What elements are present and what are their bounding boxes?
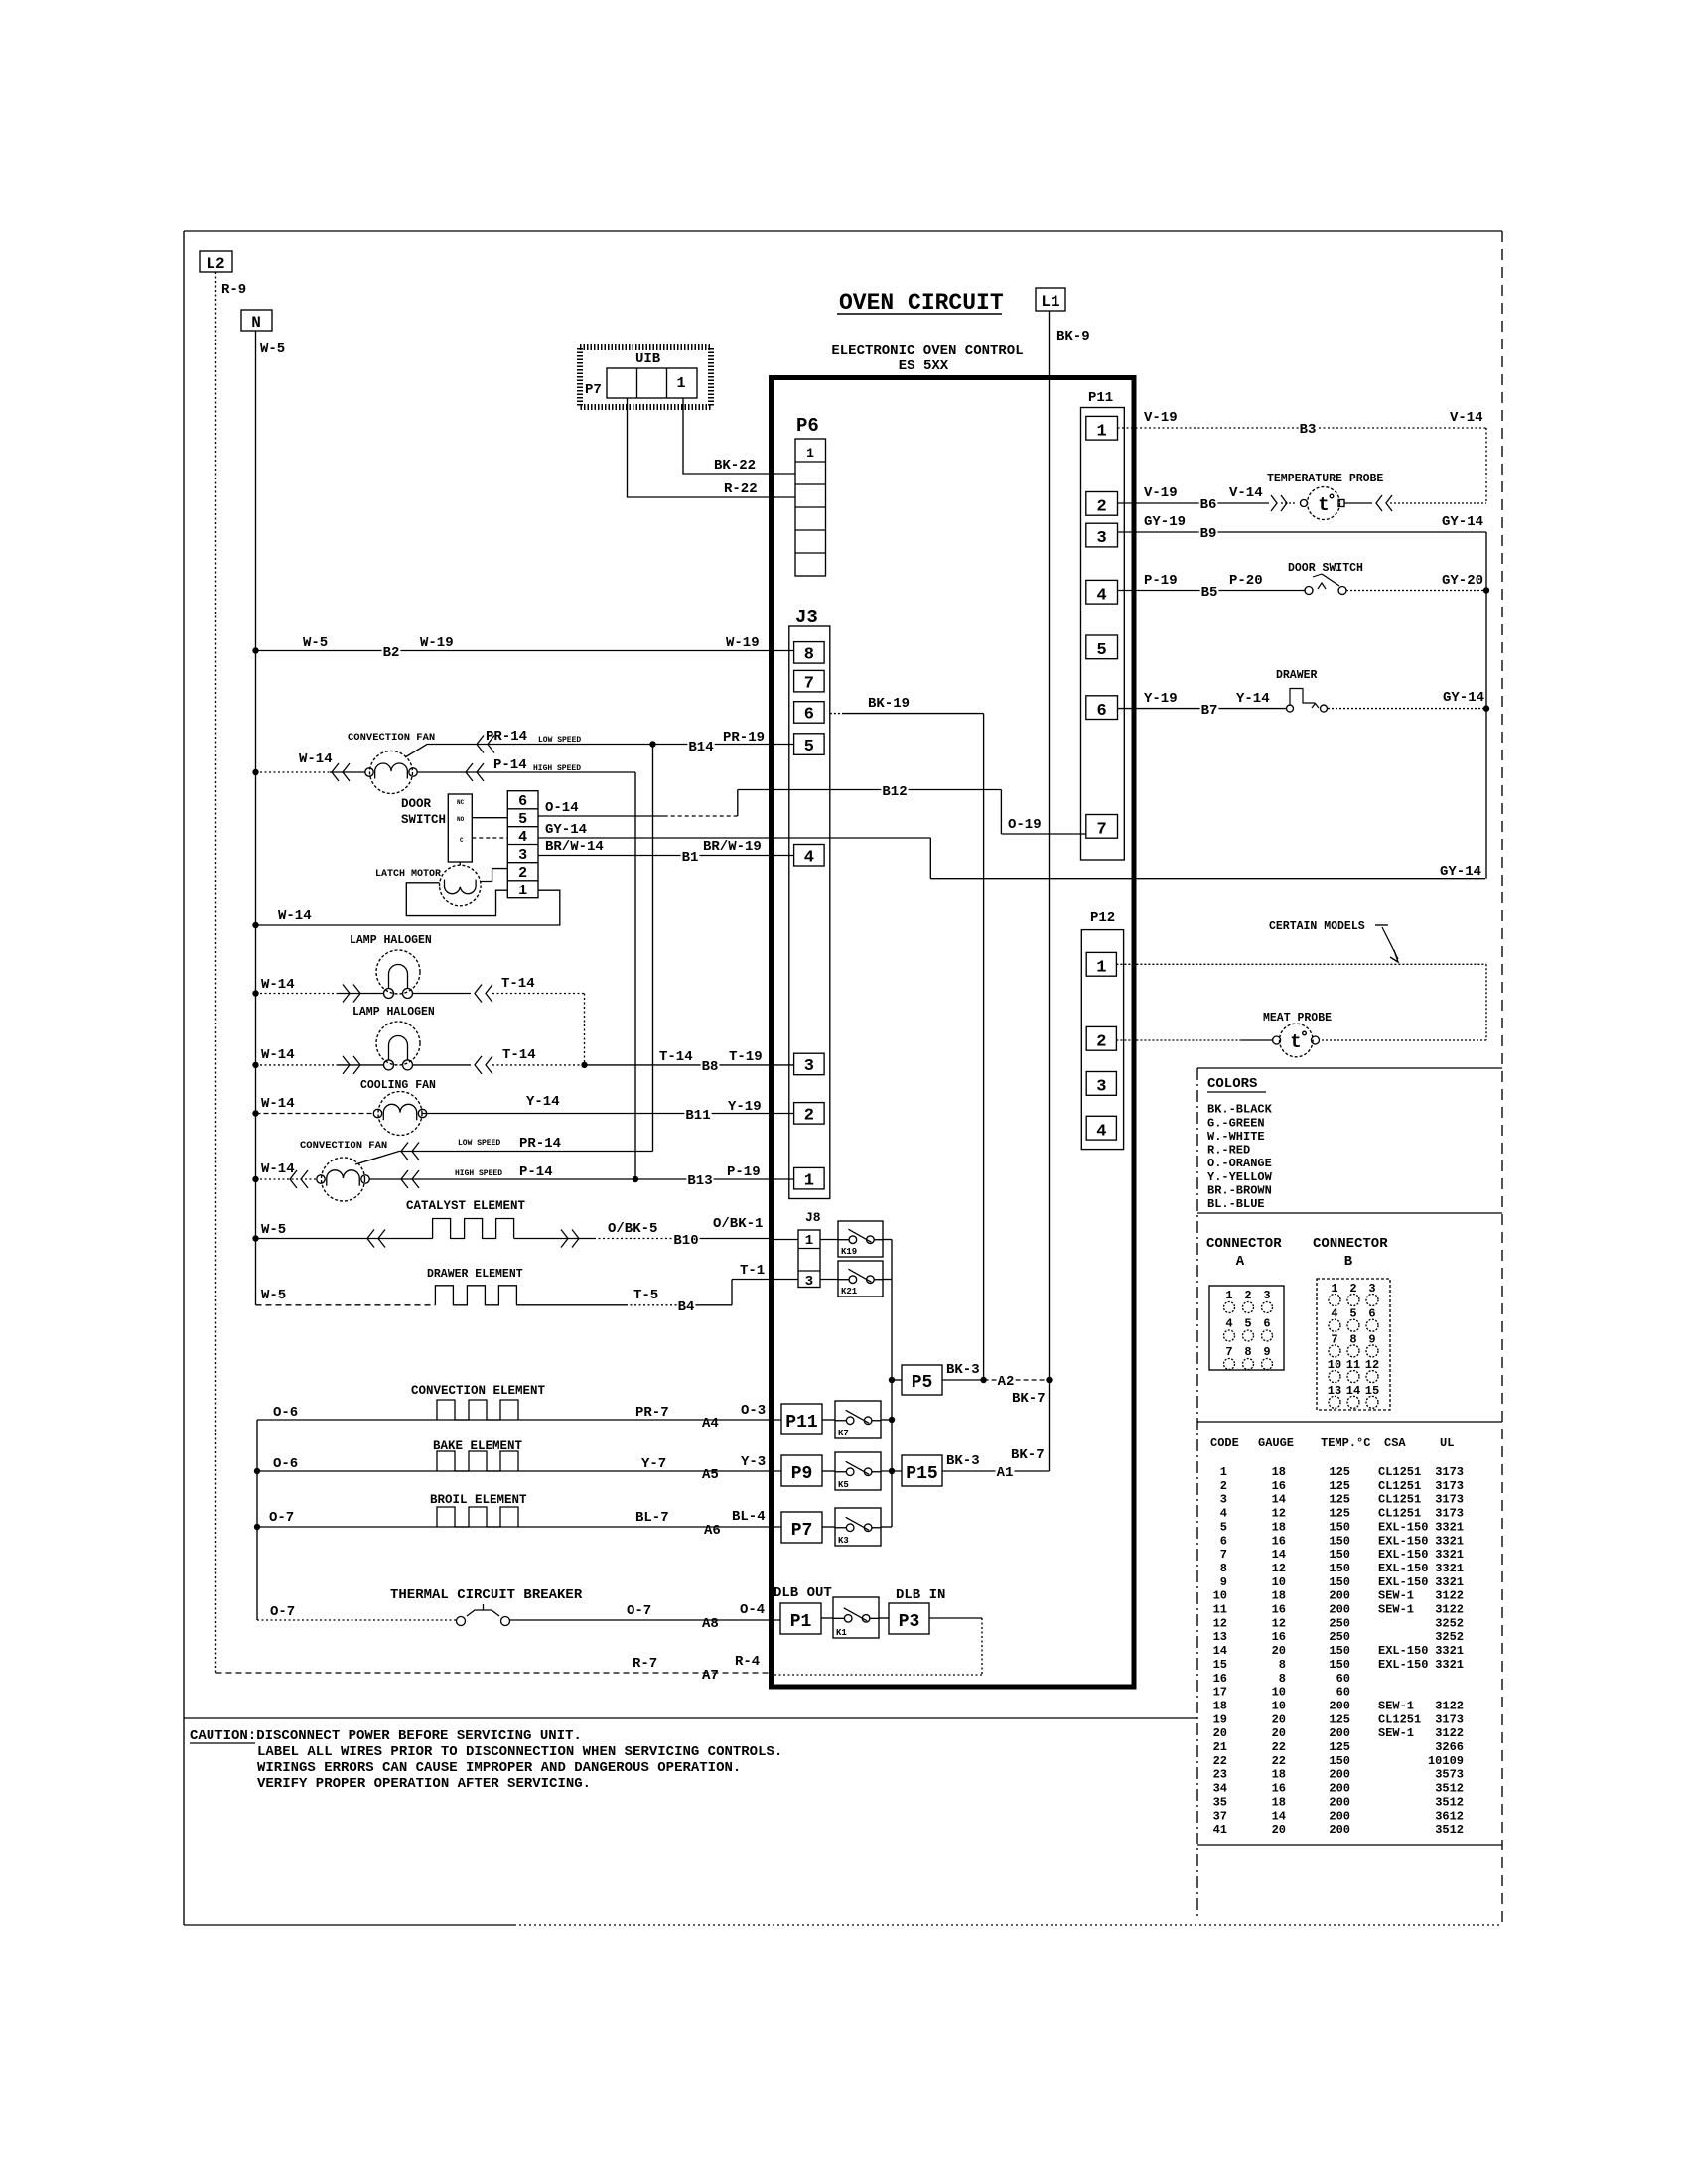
J3 pin 7 [794,670,825,693]
wire latch motor to door switch [459,862,461,865]
svg-text:A5: A5 [702,1467,719,1483]
svg-text:P-14: P-14 [519,1164,553,1180]
svg-text:CAUTION:DISCONNECT POWER BEFOR: CAUTION:DISCONNECT POWER BEFORE SERVICIN… [190,1728,582,1744]
svg-text:PR-7: PR-7 [635,1405,669,1421]
svg-text:P-14: P-14 [493,757,527,773]
svg-text:T-14: T-14 [502,1047,536,1063]
svg-text:5: 5 [1244,1317,1251,1331]
svg-text:3321: 3321 [1435,1658,1464,1672]
wire gauge table [1210,1436,1464,1837]
relay K5 [835,1452,881,1490]
arrows W-14 fan upper [332,763,350,781]
svg-text:4: 4 [1220,1507,1227,1521]
svg-text:BK-22: BK-22 [714,458,756,474]
svg-text:16: 16 [1272,1782,1286,1796]
thermal circuit breaker [457,1604,510,1626]
svg-text:V-19: V-19 [1144,410,1178,426]
J3 pin 6 [794,702,825,725]
svg-text:3: 3 [805,1274,813,1290]
svg-text:150: 150 [1329,1658,1350,1672]
svg-text:CONVECTION ELEMENT: CONVECTION ELEMENT [411,1384,546,1398]
svg-text:1: 1 [518,883,527,899]
arrows catalyst right [561,1230,579,1248]
node L2 [200,251,232,273]
J3 pin 4 [794,845,825,868]
svg-text:5: 5 [1349,1307,1356,1321]
svg-text:SEW-1: SEW-1 [1378,1589,1414,1603]
svg-text:10: 10 [1272,1686,1286,1700]
svg-text:B14: B14 [688,740,713,755]
svg-text:Y-14: Y-14 [1236,691,1270,707]
svg-text:BR.-BROWN: BR.-BROWN [1207,1184,1272,1198]
svg-text:B5: B5 [1201,585,1218,601]
svg-text:1: 1 [804,1171,814,1190]
svg-text:5: 5 [518,811,527,828]
svg-text:3612: 3612 [1435,1809,1464,1823]
svg-text:NO: NO [457,816,465,823]
certain models leader arrow [1375,925,1398,962]
P12 pin 1 [1086,952,1116,977]
svg-text:22: 22 [1213,1754,1227,1768]
svg-text:R-4: R-4 [735,1654,760,1670]
svg-text:A1: A1 [997,1465,1014,1481]
svg-text:UL: UL [1440,1436,1454,1450]
electronic oven control board outline [772,378,1135,1688]
svg-text:9: 9 [1220,1575,1227,1589]
svg-text:SWITCH: SWITCH [401,813,446,827]
svg-text:T-19: T-19 [729,1049,763,1065]
label B14 [687,740,714,752]
drawer element resistor [435,1286,516,1305]
svg-text:K1: K1 [836,1628,847,1638]
wire BK-3 A1 from P15 [942,1470,1050,1472]
svg-text:GAUGE: GAUGE [1258,1436,1294,1450]
svg-text:11: 11 [1213,1603,1227,1617]
svg-text:W-5: W-5 [261,1222,286,1238]
page border frame [184,231,1502,1925]
meat probe [1273,1024,1320,1057]
svg-text:8: 8 [1244,1345,1251,1359]
svg-text:10109: 10109 [1428,1754,1464,1768]
label B13 [686,1173,713,1186]
svg-text:P1: P1 [790,1612,812,1632]
svg-text:200: 200 [1329,1809,1350,1823]
svg-text:NC: NC [457,799,465,806]
wire BK-19 from J3 pin 6 [830,713,984,715]
svg-text:1: 1 [1220,1465,1227,1479]
wire P9 to K5 [822,1470,835,1472]
svg-text:LAMP HALOGEN: LAMP HALOGEN [352,1006,435,1019]
svg-text:EXL-150: EXL-150 [1378,1644,1428,1658]
svg-text:W-14: W-14 [261,1047,295,1063]
svg-text:V-14: V-14 [1450,410,1483,426]
wire P7 to K3 [822,1526,835,1528]
wire B11 Y-19 to J3 pin 2 [423,1113,794,1115]
svg-text:7: 7 [1331,1332,1337,1346]
label B3 [1299,422,1318,435]
junction W-14 cooling [252,1110,258,1116]
svg-text:3: 3 [804,1057,814,1076]
svg-text:12: 12 [1272,1616,1286,1630]
svg-text:14: 14 [1272,1493,1286,1507]
svg-text:B7: B7 [1201,703,1218,719]
svg-text:125: 125 [1329,1740,1350,1754]
arrows catalyst left [367,1230,385,1248]
svg-text:O.-ORANGE: O.-ORANGE [1207,1157,1272,1170]
svg-text:14: 14 [1272,1548,1286,1562]
svg-text:1: 1 [1096,958,1106,977]
svg-text:V-19: V-19 [1144,485,1178,501]
svg-text:W-5: W-5 [303,635,328,651]
wire P12 pin 1 loop [1116,964,1486,1040]
svg-text:150: 150 [1329,1575,1350,1589]
wire BK-22 from UIB pin to P6 [683,398,795,474]
svg-text:VERIFY PROPER OPERATION AFTER: VERIFY PROPER OPERATION AFTER SERVICING. [257,1776,591,1792]
latch motor [440,865,482,906]
svg-text:2: 2 [1349,1282,1356,1296]
svg-text:3573: 3573 [1435,1768,1464,1782]
svg-text:13: 13 [1213,1630,1227,1644]
svg-text:150: 150 [1329,1548,1350,1562]
svg-text:7: 7 [1096,821,1106,840]
P12 pin 2 [1086,1026,1116,1051]
svg-text:5: 5 [1220,1520,1227,1534]
svg-text:125: 125 [1329,1507,1350,1521]
wire GY-14 from door switch pin 4 [538,838,1485,879]
svg-text:200: 200 [1329,1726,1350,1740]
svg-text:P7: P7 [585,382,602,398]
svg-text:EXL-150: EXL-150 [1378,1534,1428,1548]
svg-text:P-19: P-19 [727,1164,761,1180]
svg-text:O-19: O-19 [1008,817,1042,833]
wire R-7 A7 into board [216,1672,772,1674]
svg-text:P5: P5 [912,1373,933,1393]
svg-text:CERTAIN MODELS: CERTAIN MODELS [1269,920,1365,933]
junction bus K7 [889,1417,895,1423]
svg-text:4: 4 [1331,1307,1337,1321]
label CONNECTOR A [1206,1236,1282,1270]
wire B2 W-19 to J3 pin 8 [256,650,794,652]
svg-text:7: 7 [804,674,814,693]
svg-text:CONVECTION FAN: CONVECTION FAN [348,732,435,744]
svg-text:14: 14 [1272,1809,1286,1823]
right column borders [1197,1068,1502,1919]
wire B13 P-19 to J3 pin 1 (high speed) [635,1178,794,1180]
svg-text:250: 250 [1329,1616,1350,1630]
svg-text:125: 125 [1329,1479,1350,1493]
svg-text:B11: B11 [685,1108,710,1124]
svg-text:W.-WHITE: W.-WHITE [1207,1130,1265,1144]
svg-text:COOLING FAN: COOLING FAN [360,1079,436,1092]
J3 pin 8 [794,642,825,665]
svg-text:P11: P11 [1088,390,1113,406]
svg-text:4: 4 [1096,1122,1106,1141]
svg-text:16: 16 [1272,1479,1286,1493]
J3 pin 3 [794,1053,825,1076]
svg-text:EXL-150: EXL-150 [1378,1575,1428,1589]
svg-text:20: 20 [1213,1726,1227,1740]
svg-text:TEMPERATURE PROBE: TEMPERATURE PROBE [1267,473,1383,485]
P11 pin 6 [1086,696,1118,721]
wire GY-14 dotted drawer [1328,708,1486,710]
J3 pin 5 [794,734,825,756]
svg-text:t: t [1318,494,1329,516]
label ELECTRONIC OVEN CONTROL ES 5XX [831,343,1023,374]
svg-text:B13: B13 [687,1173,712,1189]
junction high speed bus [633,1176,638,1182]
junction BK-7 A2 [1046,1377,1052,1383]
junction bus P5 [889,1377,895,1383]
svg-text:6: 6 [1368,1307,1375,1321]
svg-text:A6: A6 [704,1523,721,1539]
svg-text:O-6: O-6 [273,1456,298,1472]
svg-text:17: 17 [1213,1686,1227,1700]
wire drawer W-5 side [256,1304,436,1306]
wire B3 V-14 from P11 pin 1 [1118,428,1487,503]
convection fan lower motor [317,1158,369,1201]
svg-text:CL1251: CL1251 [1378,1493,1421,1507]
wire B8 T-19 to J3 pin 3 [585,1064,794,1066]
UIB board hatched outline [580,347,711,407]
svg-text:8: 8 [1279,1658,1286,1672]
wire catalyst right O/BK-5 [514,1238,771,1240]
P12 pin 4 [1086,1116,1116,1141]
svg-text:CONNECTOR: CONNECTOR [1313,1236,1388,1252]
svg-text:BK-19: BK-19 [868,696,910,712]
svg-text:BR/W-14: BR/W-14 [545,839,604,855]
svg-text:UIB: UIB [635,351,661,367]
svg-text:1: 1 [805,1233,813,1249]
junction W-14 conv lower [252,1176,258,1182]
svg-text:LAMP HALOGEN: LAMP HALOGEN [350,934,432,947]
svg-text:5: 5 [1096,641,1106,660]
wire W-14 into convection fan upper [256,771,366,773]
terminal P9 [781,1455,822,1486]
svg-text:14: 14 [1213,1644,1227,1658]
svg-text:T-14: T-14 [659,1049,693,1065]
relay K7 [835,1401,881,1438]
svg-text:P12: P12 [1090,910,1115,926]
low speed vertical bus [652,745,654,1152]
svg-text:3321: 3321 [1435,1520,1464,1534]
svg-text:3: 3 [1263,1289,1270,1302]
wire R-22 from UIB pin to P6 [628,398,796,497]
svg-text:200: 200 [1329,1782,1350,1796]
svg-text:2: 2 [1244,1289,1251,1302]
svg-text:B3: B3 [1300,422,1317,438]
wire bake element [257,1470,781,1472]
svg-text:DRAWER ELEMENT: DRAWER ELEMENT [427,1268,523,1281]
svg-text:W-14: W-14 [278,908,312,924]
svg-text:35: 35 [1213,1795,1227,1809]
connector P6 6-pin strip [795,439,826,576]
junction element bus broil [254,1524,260,1530]
wire B14 PR-19 to J3 pin 5 (low speed) [653,744,794,746]
svg-text:A2: A2 [998,1374,1015,1390]
wire thermal breaker left [257,1619,456,1621]
svg-text:23: 23 [1213,1768,1227,1782]
svg-text:3: 3 [1220,1493,1227,1507]
catalyst element resistor [433,1219,514,1239]
svg-text:CONNECTOR: CONNECTOR [1206,1236,1282,1252]
svg-text:CL1251: CL1251 [1378,1712,1421,1726]
svg-text:200: 200 [1329,1795,1350,1809]
svg-text:150: 150 [1329,1644,1350,1658]
wire drawer right T-5 to J8 [516,1280,798,1305]
svg-text:2: 2 [518,865,527,882]
svg-text:200: 200 [1329,1768,1350,1782]
svg-text:12: 12 [1272,1562,1286,1575]
svg-text:3122: 3122 [1435,1699,1464,1712]
svg-text:18: 18 [1213,1699,1227,1712]
junction W-14 fan upper [252,769,258,775]
svg-text:R-7: R-7 [633,1656,657,1672]
svg-text:22: 22 [1272,1740,1286,1754]
svg-text:Y-3: Y-3 [741,1454,766,1470]
svg-text:K5: K5 [838,1480,849,1490]
svg-text:2: 2 [1096,498,1106,517]
svg-text:8: 8 [1279,1672,1286,1686]
svg-text:COLORS: COLORS [1207,1076,1257,1092]
svg-text:6: 6 [1096,702,1106,721]
svg-text:O-6: O-6 [273,1405,298,1421]
label B1 [681,850,700,863]
J3 pin 1 [794,1167,825,1190]
broil element resistor [437,1507,518,1527]
COLORS legend [1207,1076,1273,1211]
svg-text:37: 37 [1213,1809,1227,1823]
svg-text:125: 125 [1329,1493,1350,1507]
svg-text:2: 2 [804,1107,814,1126]
svg-text:J3: J3 [795,607,818,628]
wire P3 return loop [771,1618,982,1675]
svg-text:18: 18 [1272,1589,1286,1603]
svg-text:4: 4 [518,829,527,846]
svg-text:B: B [1344,1254,1353,1270]
junction W-5 catalyst [252,1235,258,1241]
connector J3 outline [789,626,830,1199]
svg-text:6: 6 [1220,1534,1227,1548]
svg-text:N: N [251,314,261,332]
svg-text:B6: B6 [1200,497,1217,513]
svg-text:3: 3 [1096,529,1106,548]
svg-text:BK-7: BK-7 [1011,1447,1045,1463]
svg-text:B9: B9 [1200,526,1217,542]
svg-text:OVEN CIRCUIT: OVEN CIRCUIT [839,290,1004,316]
wire B7 Y-14 from P11 pin 6 [1118,708,1288,710]
svg-text:3512: 3512 [1435,1795,1464,1809]
svg-text:5: 5 [804,738,814,756]
label CONNECTOR B [1313,1236,1388,1270]
arrows PR-14 upper [477,736,494,753]
connector B face [1317,1279,1390,1410]
terminal P1 [780,1603,821,1634]
convection fan upper motor [365,751,417,794]
svg-text:20: 20 [1272,1823,1286,1837]
label B11 [684,1108,711,1121]
svg-text:O-7: O-7 [627,1603,651,1619]
svg-text:SEW-1: SEW-1 [1378,1699,1414,1712]
wire low speed lower [355,1152,653,1165]
arrows lamp2 left [343,1056,360,1074]
temperature probe [1281,487,1344,520]
svg-text:3252: 3252 [1435,1616,1464,1630]
svg-text:O/BK-1: O/BK-1 [713,1216,763,1232]
svg-text:125: 125 [1329,1712,1350,1726]
svg-text:Y-7: Y-7 [641,1456,666,1472]
svg-text:DRAWER: DRAWER [1276,669,1318,682]
connector J8 strip [798,1230,820,1290]
svg-text:Y.-YELLOW: Y.-YELLOW [1207,1170,1273,1184]
svg-text:ES 5XX: ES 5XX [899,358,949,374]
svg-text:t: t [1290,1031,1301,1053]
wire broil element [257,1526,781,1528]
label B6 [1199,497,1218,510]
svg-text:B8: B8 [702,1059,719,1075]
wire temp probe right [1344,502,1486,504]
svg-text:60: 60 [1336,1686,1350,1700]
svg-text:10: 10 [1328,1358,1341,1372]
convection element resistor [437,1400,518,1420]
svg-text:T-1: T-1 [740,1263,765,1279]
svg-text:K3: K3 [838,1536,849,1546]
svg-text:1: 1 [676,375,685,392]
door switch connector 6-pin strip [507,791,538,900]
connector P12 outline [1081,930,1123,1150]
svg-text:150: 150 [1329,1520,1350,1534]
svg-text:1: 1 [1225,1289,1232,1302]
svg-text:200: 200 [1329,1589,1350,1603]
svg-text:P7: P7 [791,1521,813,1541]
svg-text:B4: B4 [678,1299,695,1315]
svg-text:3512: 3512 [1435,1823,1464,1837]
svg-text:12: 12 [1213,1616,1227,1630]
node N [241,310,272,332]
svg-text:150: 150 [1329,1754,1350,1768]
svg-text:11: 11 [1346,1358,1360,1372]
junction GY-14 drawer [1483,705,1489,711]
svg-text:LATCH MOTOR: LATCH MOTOR [375,869,441,880]
wire O-14 from pin 5 [538,790,738,817]
wire catalyst W-5 side [256,1238,433,1240]
relay K19 [838,1221,883,1257]
wire W-14 lamp 2 [256,1064,585,1066]
junction bus K5 [889,1468,895,1474]
svg-text:A8: A8 [702,1616,719,1632]
svg-text:9: 9 [1263,1345,1270,1359]
svg-text:CONVECTION FAN: CONVECTION FAN [300,1140,387,1152]
svg-text:L1: L1 [1041,293,1059,311]
svg-text:GY-19: GY-19 [1144,514,1186,530]
arrows temp probe right [1376,495,1392,511]
svg-text:P6: P6 [796,415,819,437]
terminal P11 relay input [781,1404,822,1434]
BK-19 vertical to A2 [983,714,985,1380]
svg-text:BROIL ELEMENT: BROIL ELEMENT [430,1493,527,1507]
arrows low speed lower [401,1143,419,1160]
svg-text:200: 200 [1329,1603,1350,1617]
svg-text:150: 150 [1329,1562,1350,1575]
svg-text:EXL-150: EXL-150 [1378,1548,1428,1562]
svg-text:O-4: O-4 [740,1602,765,1618]
svg-text:K21: K21 [841,1287,858,1297]
svg-text:PR-14: PR-14 [519,1136,561,1152]
svg-text:CL1251: CL1251 [1378,1465,1421,1479]
wire low speed PR-14 upper [405,745,653,758]
wire B9 GY-19 from P11 pin 3 [1118,532,1487,879]
svg-text:9: 9 [1368,1332,1375,1346]
svg-text:3321: 3321 [1435,1562,1464,1575]
